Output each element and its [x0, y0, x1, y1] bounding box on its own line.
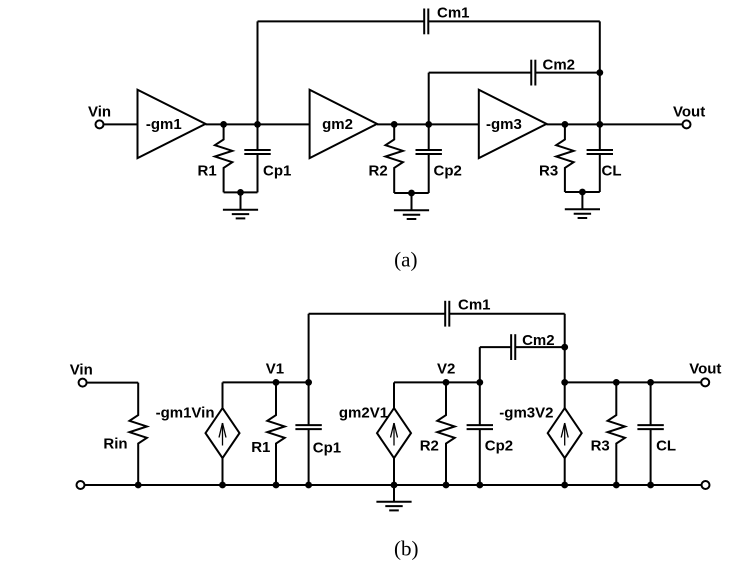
svg-text:Rin: Rin [103, 436, 127, 453]
svg-text:Vin: Vin [88, 103, 111, 120]
svg-text:Cp1: Cp1 [313, 440, 341, 457]
svg-text:Cm2: Cm2 [522, 332, 555, 349]
svg-text:R2: R2 [369, 163, 388, 180]
svg-text:(b): (b) [394, 537, 419, 561]
svg-text:(a): (a) [394, 248, 417, 272]
svg-text:gm2V1: gm2V1 [339, 405, 388, 422]
svg-text:Cp1: Cp1 [263, 163, 291, 180]
svg-text:R1: R1 [251, 439, 270, 456]
svg-text:R2: R2 [420, 438, 439, 455]
svg-text:-gm1Vin: -gm1Vin [156, 405, 215, 422]
svg-text:Cm1: Cm1 [458, 297, 491, 314]
svg-text:gm2: gm2 [322, 116, 353, 133]
svg-text:CL: CL [602, 163, 622, 180]
svg-text:Cm2: Cm2 [543, 57, 576, 74]
svg-text:V1: V1 [266, 361, 284, 378]
svg-text:-gm3: -gm3 [486, 116, 522, 133]
svg-text:R3: R3 [591, 438, 610, 455]
svg-text:-gm1: -gm1 [146, 116, 182, 133]
svg-text:R3: R3 [539, 163, 558, 180]
svg-text:-gm3V2: -gm3V2 [499, 405, 553, 422]
svg-text:Vout: Vout [673, 103, 705, 120]
svg-text:Cp2: Cp2 [485, 438, 513, 455]
svg-text:Vout: Vout [689, 361, 721, 378]
svg-text:V2: V2 [437, 361, 455, 378]
svg-text:Vin: Vin [70, 361, 93, 378]
svg-text:Cm1: Cm1 [437, 5, 470, 22]
svg-text:R1: R1 [198, 163, 217, 180]
svg-text:Cp2: Cp2 [434, 163, 462, 180]
svg-text:CL: CL [656, 438, 676, 455]
